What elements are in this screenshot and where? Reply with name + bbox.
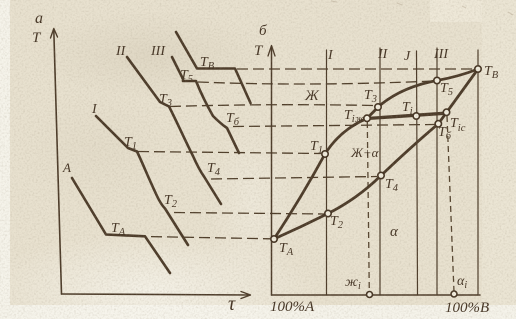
point Zh_i on axis: [367, 292, 373, 298]
vertical composition line J: [417, 51, 418, 295]
dashed line T4 level: [211, 177, 377, 180]
subtle scan shading: [0, 0, 1, 1]
tie line Tizh-Ti-Tic: [367, 113, 446, 118]
point Tb: [435, 121, 441, 127]
point T5: [434, 77, 440, 83]
faint page-top specks: [331, 1, 513, 15]
dashed vertical line Zh_i: [367, 122, 369, 293]
point Tizh: [364, 115, 370, 121]
point alpha_i on axis: [451, 291, 457, 297]
cooling curve B: [176, 32, 251, 103]
cooling curve III: [172, 57, 239, 153]
dashed level lines from cooling-curve arrests to diagram points: [138, 69, 474, 239]
point Tic: [443, 109, 449, 115]
dashed line T3 level: [170, 105, 374, 107]
solidus curve TA-T2-T4-Tb-Tic-TB: [274, 69, 478, 239]
dashed line T2 level: [174, 213, 324, 215]
dashed line T5 level: [198, 81, 433, 84]
dashed vertical line alpha_i: [447, 116, 454, 292]
liquidus curve TA-T1-Tizh-T3-T5-TB: [274, 69, 478, 239]
vertical composition line III: [436, 48, 438, 295]
point Ti: [413, 113, 419, 119]
cooling curve A: [72, 178, 170, 273]
cooling curve I: [96, 116, 188, 245]
subtle lighter top-right corner: [430, 0, 516, 22]
right composition axis (bottom): [272, 294, 481, 296]
cooling curve II: [127, 57, 221, 204]
right T axis with arrow: [271, 47, 273, 295]
vertical line 100%B (right edge): [477, 50, 479, 295]
point TA: [271, 236, 277, 242]
left T axis (tilted, arrow at top): [54, 30, 62, 294]
dashed line Tb level: [233, 125, 435, 127]
vertical composition line I: [326, 50, 328, 295]
dashed line TA level: [151, 237, 270, 239]
point T1: [322, 151, 328, 157]
experimental point circles: [271, 66, 481, 298]
point T3: [375, 104, 381, 110]
paper grain overlay: [0, 0, 1, 1]
point TB: [475, 66, 481, 72]
vertical composition line II: [379, 48, 381, 295]
dashed line T1 level: [138, 152, 321, 154]
point T2: [325, 210, 331, 216]
point T4: [378, 172, 384, 178]
left tau axis (arrow at right): [62, 294, 251, 295]
dashed line TB level: [237, 68, 474, 70]
